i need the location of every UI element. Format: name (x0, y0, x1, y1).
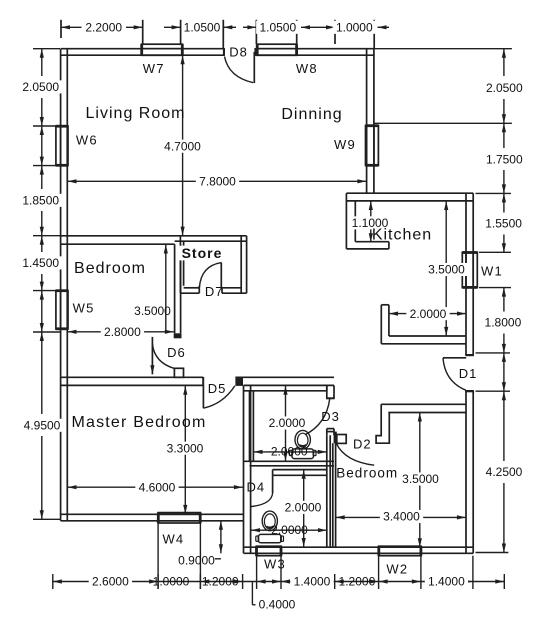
dim text 1.0000 top (333, 21, 376, 34)
dim 7.8000 living room width (68, 180, 367, 182)
svg-text:2.0000: 2.0000 (410, 307, 447, 321)
left dimension column (33, 49, 60, 520)
svg-text:1.5500: 1.5500 (485, 217, 522, 231)
door D6 bottom jamb stub (174, 368, 183, 377)
bottom dimension row (53, 523, 505, 589)
svg-text:W7: W7 (143, 61, 165, 76)
svg-text:W5: W5 (73, 301, 95, 316)
dim 0.9000 with leader (220, 521, 222, 554)
dim text 1.8500 left (19, 194, 62, 207)
door D1 leaf (443, 357, 466, 359)
dim 4.6000 master bedroom width (68, 486, 243, 488)
svg-text:D2: D2 (353, 436, 372, 451)
wall: exterior right wall (opening for D1) (465, 193, 467, 355)
svg-text:2.6000: 2.6000 (92, 575, 129, 589)
toilet in lower bathroom (256, 511, 284, 543)
svg-text:Living Room: Living Room (86, 105, 186, 122)
svg-text:3.5000: 3.5000 (134, 304, 171, 318)
door D7 leaf (220, 263, 222, 288)
door D1 swing arc (443, 358, 466, 390)
wall: dinning east wall (upper right) (366, 49, 368, 194)
svg-text:1.8000: 1.8000 (485, 316, 522, 330)
svg-text:2.0000: 2.0000 (269, 416, 306, 430)
wall: kitchen top wall (346, 192, 473, 194)
wall: exterior top wall (two parallel lines, openings for W7/D8/W8) (61, 48, 224, 50)
svg-text:D5: D5 (208, 381, 227, 396)
svg-text:D1: D1 (459, 366, 478, 381)
wall: bathroom upper top wall inner pair (244, 390, 327, 392)
svg-text:3.3000: 3.3000 (167, 441, 204, 455)
svg-text:1.4000: 1.4000 (428, 575, 465, 589)
wall: upper bathroom bottom wall (244, 460, 335, 462)
dim 3.5000 kitchen height (445, 201, 447, 336)
window W5 (56, 291, 68, 330)
wall: bedroom east wall (top-left bedroom) (174, 244, 176, 333)
wall: kitchen west L-wall with counter return (345, 193, 347, 249)
svg-text:W6: W6 (76, 132, 98, 147)
door D4 leaf (272, 475, 274, 493)
wall: bath/bedroom double wall (south half) (326, 435, 328, 547)
svg-text:Bedroom: Bedroom (336, 465, 398, 480)
window W2 (379, 546, 422, 556)
svg-text:W4: W4 (162, 532, 184, 547)
svg-text:3.4000: 3.4000 (383, 510, 420, 524)
svg-text:0.9000: 0.9000 (178, 554, 215, 568)
svg-text:7.8000: 7.8000 (199, 175, 236, 189)
wall: bathroom west wall (upper) (249, 391, 251, 462)
wall: bathrooms west wall (lower) (243, 385, 245, 553)
window W4 (158, 513, 200, 523)
window W3 (256, 546, 281, 556)
svg-text:Store: Store (182, 245, 223, 261)
wall: kitchen lower L-wall (380, 305, 382, 344)
dim text 1.0500 top right (256, 21, 299, 34)
window W9 (366, 126, 379, 166)
window W8 (257, 44, 297, 55)
label Store (179, 246, 225, 261)
dim 2.0000 upper bathroom width (254, 451, 327, 453)
right dimension column (374, 49, 512, 553)
svg-text:1.0500: 1.0500 (259, 21, 296, 35)
svg-text:1.7500: 1.7500 (486, 152, 523, 166)
svg-text:4.2500: 4.2500 (486, 465, 523, 479)
svg-text:1.0000: 1.0000 (153, 575, 190, 589)
leader and dim text 0.4000 (251, 582, 253, 605)
svg-text:1.2000: 1.2000 (339, 575, 376, 589)
svg-text:2.2000: 2.2000 (85, 21, 122, 35)
dim 2.0000 lower bathroom height (303, 470, 305, 547)
svg-text:4.9500: 4.9500 (24, 419, 61, 433)
svg-text:3.5000: 3.5000 (428, 263, 465, 277)
door D7 swing arc (199, 263, 221, 288)
door D4 swing arc (251, 493, 273, 507)
window W7 (142, 44, 183, 55)
svg-text:W2: W2 (386, 561, 408, 576)
door D6 swing arc (152, 344, 174, 368)
door D2 swing arc (336, 443, 374, 465)
svg-text:W9: W9 (334, 137, 356, 152)
svg-text:4.7000: 4.7000 (164, 139, 201, 153)
dim 3.3000 master bedroom height (184, 386, 186, 514)
wall: store left wall line (183, 241, 185, 286)
dim 1.1000 kitchen (370, 201, 372, 242)
wall: D2 hinge notch on bedroom NW corner (327, 431, 334, 433)
svg-text:D7: D7 (205, 284, 224, 299)
door D3 swing arc (305, 398, 330, 434)
door D5 leaf (202, 386, 204, 409)
dim text 2.6000 bottom (89, 575, 132, 588)
wall: lower bathroom top wall with D4 opening (273, 469, 327, 471)
svg-text:1.2000: 1.2000 (202, 575, 239, 589)
wall: master bedroom bottom wall (61, 513, 244, 515)
svg-text:2.8000: 2.8000 (104, 325, 141, 339)
dim 3.4000 SE bedroom width (336, 516, 466, 518)
door D6 leaf with dim arrow (151, 337, 153, 374)
wall: bathroom east stub above D3 (326, 385, 328, 398)
label D1 (459, 367, 478, 381)
window W6 (56, 126, 68, 166)
svg-text:2.0000: 2.0000 (285, 501, 322, 515)
svg-text:0.4000: 0.4000 (259, 598, 296, 612)
svg-text:D3: D3 (321, 409, 340, 424)
door D5 swing arc (203, 386, 235, 408)
svg-text:1.0000: 1.0000 (336, 21, 373, 35)
dim 3.5000 bedroom height (165, 245, 167, 332)
svg-text:W8: W8 (296, 61, 318, 76)
label D8 (229, 45, 248, 59)
svg-text:D8: D8 (229, 44, 248, 59)
dim text 4.9500 left (20, 419, 63, 432)
window W1 (462, 252, 477, 287)
dim 3.5000 SE bedroom height (419, 413, 421, 548)
svg-text:Kitchen: Kitchen (372, 227, 432, 244)
svg-text:1.4000: 1.4000 (294, 575, 331, 589)
svg-text:W3: W3 (264, 557, 286, 572)
dim text 1.4000 bottom center (290, 575, 333, 588)
dim text 1.4000 bottom right (425, 575, 468, 588)
svg-text:D4: D4 (246, 480, 265, 495)
door D8 leaf (253, 52, 255, 83)
svg-text:3.5000: 3.5000 (402, 472, 439, 486)
wall: SE bedroom top wall with step (381, 403, 466, 405)
wall: living room / bedroom+store dividing wall (61, 235, 247, 237)
door D8 swing arc (225, 57, 254, 83)
svg-text:2.0500: 2.0500 (486, 81, 523, 95)
svg-text:2.0000: 2.0000 (271, 523, 308, 537)
wall: store bottom wall with D7 opening (180, 292, 199, 294)
svg-text:2.0000: 2.0000 (271, 444, 308, 458)
dim 2.8000 bedroom width (68, 331, 174, 333)
svg-text:Dinning: Dinning (281, 106, 342, 123)
wall: store right wall (240, 236, 242, 293)
wall: exterior left wall (60, 49, 62, 521)
dim 4.7000 living room height (182, 55, 184, 235)
svg-text:1.4500: 1.4500 (22, 256, 59, 270)
svg-text:D6: D6 (167, 345, 186, 360)
svg-text:4.6000: 4.6000 (139, 480, 176, 494)
dim 2.0000 upper bathroom height (285, 386, 287, 461)
dim 2.0000 kitchen counter (389, 313, 466, 315)
svg-text:Master Bedroom: Master Bedroom (71, 414, 206, 431)
svg-text:1.8500: 1.8500 (22, 194, 59, 208)
wall: bathroom east stub below D3 (326, 429, 328, 436)
dim text 2.0500 left (19, 80, 62, 93)
svg-text:W1: W1 (481, 263, 503, 278)
svg-text:2.0500: 2.0500 (22, 80, 59, 94)
svg-text:Bedroom: Bedroom (74, 260, 146, 277)
svg-text:1.0500: 1.0500 (184, 21, 221, 35)
wall: hall south wall with D5 opening (61, 376, 204, 378)
dim 2.0000 lower bathroom width (251, 529, 327, 531)
toilet in upper bathroom (289, 430, 316, 458)
wall: exterior bottom wall (bathroom + SE bedroom) (244, 546, 474, 548)
top dimension row (61, 20, 389, 48)
dim text 1.4500 left (19, 256, 62, 269)
